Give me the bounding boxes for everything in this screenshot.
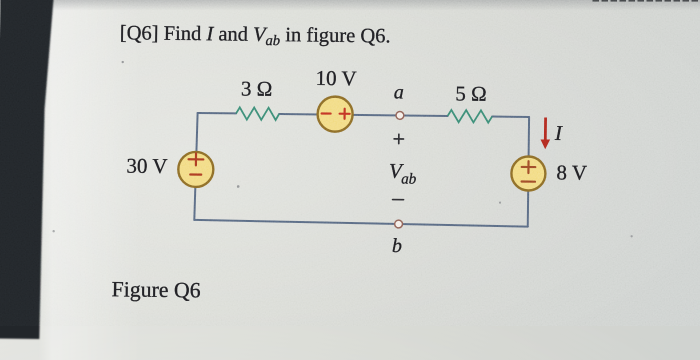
svg-text:I: I [554,121,563,145]
svg-text:30 V: 30 V [126,154,167,178]
svg-text:a: a [394,81,404,103]
svg-text:ab: ab [401,170,417,187]
svg-text:Figure Q6: Figure Q6 [112,277,201,302]
svg-text:3 Ω: 3 Ω [241,76,273,100]
svg-text:b: b [392,235,402,257]
svg-text:8 V: 8 V [556,160,587,184]
svg-text:10 V: 10 V [315,66,356,90]
svg-text:[Q6] Find I and Vab in figure: [Q6] Find I and Vab in figure Q6. [120,22,391,50]
svg-text:5 Ω: 5 Ω [455,81,487,105]
